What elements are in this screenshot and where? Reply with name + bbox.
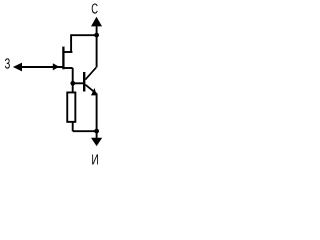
wire: base node to BJT base <box>73 82 85 84</box>
terminal arrow: Z (gate) pointing left <box>13 63 22 72</box>
wire: JFET source lead <box>63 67 73 69</box>
transistor VT2: BJT emitter arrowhead <box>91 88 97 96</box>
wire: resistor bottom lead <box>72 122 74 131</box>
wire: JFET drain lead <box>62 51 72 53</box>
terminal arrow: I (source) pointing down <box>91 138 102 146</box>
transistor VT1: JFET channel bar <box>62 47 64 70</box>
svg-text:С: С <box>91 1 98 17</box>
wire: vertical down to JFET drain lead <box>70 34 72 52</box>
wire: top horizontal from drain node to JFET drain <box>71 34 97 36</box>
node: drain junction dot <box>94 33 99 38</box>
svg-text:З: З <box>5 57 11 73</box>
svg-text:И: И <box>91 153 98 168</box>
resistor R1 <box>67 92 75 121</box>
transistor VT2: BJT emitter diagonal <box>85 85 96 94</box>
transistor VT1: JFET gate arrowhead <box>53 63 59 70</box>
wire: drain/collector vertical (terminal C lead) <box>96 26 98 67</box>
wire: emitter vertical to terminal I <box>96 93 98 138</box>
wire: JFET source down to base node and resistor top <box>72 68 74 92</box>
wire: gate lead from terminal to JFET <box>22 66 64 68</box>
terminal arrow: C (drain) pointing up <box>91 17 102 27</box>
wire: bottom horizontal to source node <box>73 130 97 132</box>
transistor VT2: BJT collector diagonal <box>85 67 96 79</box>
node: base junction dot <box>70 81 75 86</box>
transistor VT2: BJT base bar <box>83 72 85 92</box>
node: source junction dot <box>94 129 99 134</box>
